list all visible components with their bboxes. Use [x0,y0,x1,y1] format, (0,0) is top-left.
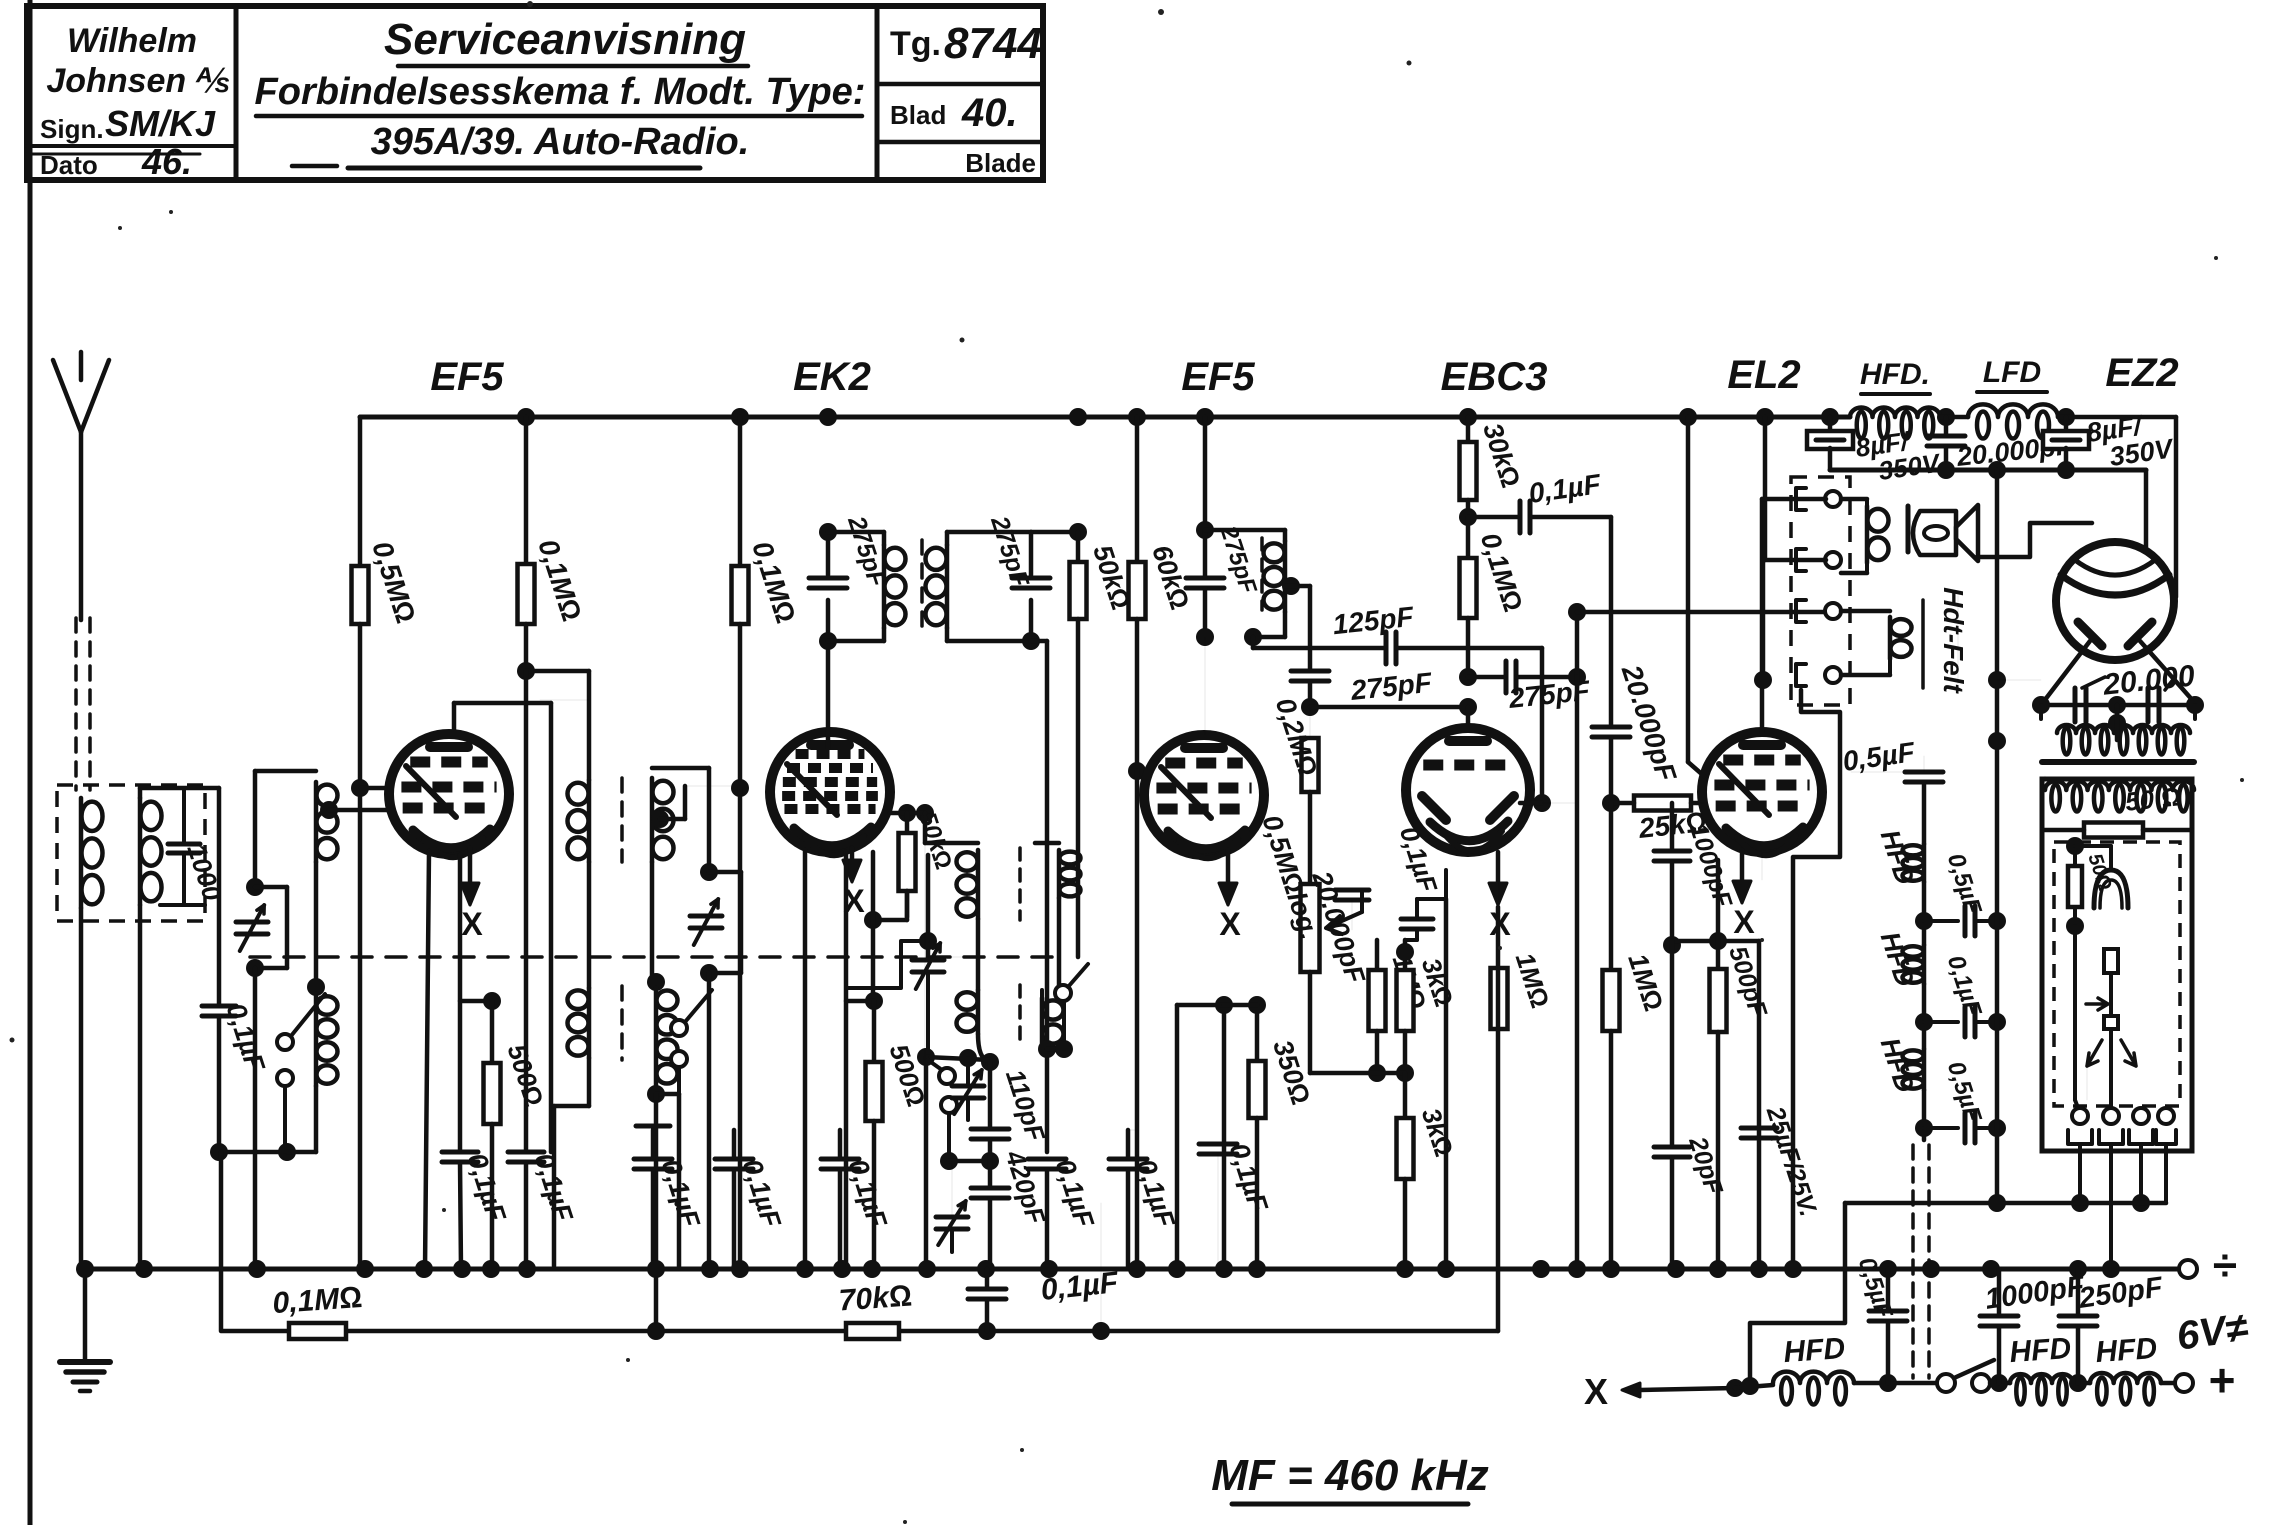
tall winding A lower [568,990,589,1009]
resistor 350ohm [1255,1005,1260,1061]
tg rule [877,82,1043,87]
EL2 top cap riser [1760,499,1765,732]
tall winding A middle [587,862,592,988]
svg-text:SM/KJ: SM/KJ [105,103,216,144]
svg-text:40.: 40. [961,91,1018,135]
osc tap [651,810,669,828]
svg-text:HFD: HFD [2008,1332,2072,1369]
osc fb link [873,918,907,923]
svg-text:Blade: Blade [965,148,1036,178]
vibrator pin 3 [2133,1108,2149,1124]
junction on bottom bus x=144 [135,1260,153,1278]
svg-text:Johnsen ⅍: Johnsen ⅍ [46,62,229,100]
EL2 screen riser [1686,417,1691,762]
plus rail segment 3 [1990,1381,2010,1386]
resistor 50kohm osc [905,813,910,833]
EZ2 anode lead right [2140,641,2195,703]
capacitor 250pF bottom [2076,1269,2081,1316]
bus terminal plus [2175,1374,2193,1392]
EK2 top cap lead [826,641,831,748]
tube EF5 No1 [389,734,509,854]
junction on bottom bus x=805 [796,1260,814,1278]
IFT1 primary bottom [828,639,884,644]
EZ2 anode lead left [2041,641,2090,705]
junction on bottom bus x=1718 [1709,1260,1727,1278]
resistor 50kohm [1076,532,1081,562]
wire HFD to LFD [1940,415,1968,420]
transformer terminal 2 [1796,549,1806,571]
tube EBC3 [1406,728,1530,852]
ground symbol [60,1359,110,1365]
speaker bar [1906,506,1911,552]
svg-text:EZ2: EZ2 [2105,351,2178,395]
resistor 0,5Mohm body [358,417,363,566]
svg-text:X: X [461,906,483,942]
junction on top bus x=1688 [1679,408,1697,426]
capacitor 0,5uF top [1851,771,1906,773]
IFT1 primary left side [826,532,831,575]
choke chain node 2 [1922,984,1927,1049]
capacitor 20.000pF filter [1944,417,1949,436]
svg-text:X: X [1733,904,1755,940]
vibrator pin wires [2078,1144,2082,1203]
junction on bottom bus x=1577 [1568,1260,1586,1278]
antenna coil shield box (dashed) [57,785,205,921]
cathode line EF5 No2 [1222,1005,1227,1269]
junction on bottom bus x=1257 [1248,1260,1266,1278]
junction on bottom bus x=842 [833,1260,851,1278]
aux line up to EBC3 [1496,907,1501,1331]
junction on bottom bus x=1676 [1667,1260,1685,1278]
gang dashed coupling line [250,955,1065,959]
EF5 cathode lead right [458,855,463,1152]
HT cap row [2041,703,2195,708]
choke HFD b1 [1773,1372,1854,1383]
EBC3 X arrow [1496,852,1501,901]
IFT1 secondary side [1029,532,1034,575]
IFT1 primary coil [885,548,906,570]
resistor 0,2Mohm [1309,707,1311,738]
125pF lead down [1540,648,1545,803]
RF grid coil top wire [255,769,316,774]
svg-text:X: X [1219,906,1241,942]
junction on bottom bus x=740 [731,1260,749,1278]
title block frame [27,6,1043,180]
svg-text:÷: ÷ [2213,1241,2237,1290]
resistor 3kohm a [1403,940,1408,970]
sign row rule [27,144,236,148]
junction on bottom bus x=527 [518,1260,536,1278]
EF5 grid lead down [549,703,554,1152]
svg-text:EK2: EK2 [793,355,871,399]
osc band switch [671,1020,687,1036]
plus rail segment 4 [2073,1381,2090,1386]
EF5 No1 X arrow [468,848,473,901]
field return vertical [1995,470,2000,1203]
svg-text:EF5: EF5 [1181,355,1255,399]
vertical field wire [1575,612,1580,677]
transformer core line [2042,759,2194,765]
wire cathode tap [1177,1003,1224,1008]
junction on bottom bus x=1931 [1922,1260,1940,1278]
junction on bottom bus x=1137 [1128,1260,1146,1278]
capacitor 0,5uF chain1 [1924,919,1958,923]
antenna [79,430,84,620]
wire 0,5M to cathode bottom [358,788,363,1269]
aux riser x=1101 [1100,1203,1102,1331]
label 20.000 ticks [2082,677,2105,688]
resistor 25kohm [1634,796,1691,811]
EF5 No2 X arrow [1226,850,1231,901]
junction on bottom bus x=491 [482,1260,500,1278]
osc grid winding upper [652,766,709,771]
junction on bottom bus x=2078 [2069,1260,2087,1278]
svg-text:EF5: EF5 [430,355,504,399]
resistor 60kohm [1135,417,1140,562]
junction on bottom bus x=462 [453,1260,471,1278]
capacitor 420pF [971,1186,1009,1191]
junction on top bus x=1830 [1821,408,1839,426]
svg-text:Forbindelsesskema f. Modt. Typ: Forbindelsesskema f. Modt. Type: [255,71,866,113]
capacitor 275pF ebc3 [1468,675,1506,680]
vibrator pin 1 [2072,1108,2088,1124]
svg-text:Blad: Blad [890,100,946,130]
EK2 anode wire [890,811,925,816]
B+ rail corner down [2144,470,2149,557]
EF5 No2 grid top lead [1204,637,1206,735]
resistor 500ohm EF5 [490,1001,495,1063]
choke HFD h3 [1903,1050,1924,1061]
osc trimmer 2 [952,1084,984,1089]
junction on bottom bus x=1446 [1437,1260,1455,1278]
capacitor 0,5uF chain3 [1924,1126,1958,1130]
primary winding [1841,497,1867,502]
vibrator return bus [1845,1201,2166,1206]
page border left rule [28,0,33,1525]
pot return wire [1310,1071,1405,1076]
resistor 0,1Mohm (screen) [524,417,529,564]
grid return wire [1672,939,1759,944]
capacitor 1000pF el2 grid [1670,803,1675,851]
capacitor 0,1uF (screen) [508,1150,544,1155]
junction on bottom bus x=710 [701,1260,719,1278]
resistor 0,1Mohm ebc3 [1466,517,1471,558]
junction on bottom bus x=986 [977,1260,995,1278]
osc node wire [926,1057,990,1060]
field coil supply wire [1577,610,1826,615]
cap 0,1uF osc out [1028,1157,1066,1162]
osc winding bottom [654,1086,659,1094]
junction on bottom bus x=1793 [1784,1260,1802,1278]
resistor 30kohm [1466,417,1471,442]
vibrator contact arrow [2086,998,2108,1010]
resistor 70kohm [846,1323,899,1339]
EZ2 anode plates [2078,622,2102,646]
resistor 500ohm EK2 [866,1062,883,1121]
resistor 0,1Mohm avc [289,1323,346,1339]
IFT1 core dashes [920,540,924,636]
capacitor 125pF [1251,637,1256,648]
junction on bottom bus x=1541 [1532,1260,1550,1278]
IFT3 cap 275pF [1186,576,1224,581]
transformer terminal 4 [1796,664,1806,686]
IFT1 secondary cap 275pF [1012,576,1050,581]
capacitor 0,1uF at x=734 [715,1157,753,1162]
60k lead to bottom bus [1135,771,1140,1269]
osc sec switch [1055,985,1071,1001]
junction on bottom bus x=656 [647,1260,665,1278]
terminal 4 return loop [1793,690,1840,1269]
osc switch 2 [939,1068,955,1084]
capacitor 20pF [1670,941,1675,1147]
svg-text:HFD: HFD [1782,1332,1846,1369]
osc trimmer 1 [912,958,944,963]
antenna shielded lead (dashed pair) [74,618,78,790]
svg-text:MF = 460 kHz: MF = 460 kHz [1211,1451,1489,1500]
ferrite core mark [636,1124,670,1129]
junction on top bus x=1078 [1069,408,1087,426]
heater twisted pair dashed [1911,1145,1915,1378]
junction on top bus x=2066 [2057,408,2075,426]
junction on bottom bus x=85 [76,1260,94,1278]
osc padder to bus [988,1198,993,1269]
svg-text:EL2: EL2 [1727,353,1800,397]
field coil [1891,619,1912,636]
IFT1 secondary top [947,530,1031,535]
junction on top bus x=740 [731,408,749,426]
EK2 grid line to bottom [738,788,743,1269]
wire LFD to corner [2058,415,2176,420]
IFT3 core dashes [1260,538,1264,610]
gang1 lead to bus [253,968,258,1269]
bottom chassis bus [85,1267,2188,1272]
svg-text:Tg.: Tg. [890,25,941,63]
IFT1 return lead [1045,641,1050,1152]
capacitor 20.000pF (pot) [1335,888,1369,893]
osc transformer primary upper [925,841,978,846]
EL2 grid lead [1691,802,1704,804]
junction on bottom bus x=927 [918,1260,936,1278]
junction on bottom bus x=1224 [1215,1260,1233,1278]
variable capacitor gang 1 [236,920,268,925]
osc coupling winding upper [540,699,589,701]
link to switch node [219,1150,287,1155]
capacitor 275pF (diode) [1291,669,1329,674]
junction on bottom bus x=1759 [1750,1260,1768,1278]
svg-text:Serviceanvisning: Serviceanvisning [384,15,746,64]
svg-text:HFD.: HFD. [1860,358,1930,391]
junction on top bus x=1946 [1937,408,1955,426]
wire diode node to EBC3 [1310,705,1468,710]
svg-text:Sign.: Sign. [40,114,104,144]
IFT3 coil box [1205,528,1285,533]
output transformer dashed box [1791,477,1850,705]
choke HFD h1 [1922,782,1927,844]
IFT1 secondary bottom [947,639,1031,644]
EK2 screen lead [925,956,978,958]
RF grid coil upper [317,785,338,806]
EBC3 grid top lead [1466,707,1471,728]
EBC3 diode 2 wire [1520,801,1542,806]
tall winding A upper [568,783,589,805]
junction on bottom bus x=2111 [2102,1260,2120,1278]
capacitor 110pF [988,1062,993,1129]
svg-text:Wilhelm: Wilhelm [67,22,197,60]
junction on bottom bus x=1888 [1879,1260,1897,1278]
secondary return to bus [138,905,143,1269]
choke HFD b2 [2010,1374,2073,1383]
svg-text:395A/39. Auto-Radio.: 395A/39. Auto-Radio. [371,121,750,163]
RF coil lower lead [314,862,319,987]
resistor 0,1Mohm (EK2 grid) [738,417,743,566]
osc node to bus [924,1057,929,1269]
vibrator feed resistor 50ohm [2084,823,2143,838]
antenna line to bus [79,908,84,1269]
potentiometer 0,5Mohm log [1301,884,1320,972]
primary winding 6V [2045,781,2194,790]
IFT1 secondary coil [926,548,947,570]
EK2 cathode lead [871,852,876,1001]
vibrator inner dashed box [2054,842,2180,1106]
top supply bus wire [360,415,1850,420]
choke chain node 3 [1922,1090,1927,1140]
title block divider 2 [875,6,880,180]
field return tap wire [1997,679,2041,681]
tall winding A bottom [587,1058,592,1106]
osc sec mid [1057,898,1062,985]
EK2 grid lead left [844,852,849,1269]
vibrator series resistor 50ohm [2068,866,2082,907]
choke chain node 1 [1922,882,1927,945]
junction on top bus x=828 [819,408,837,426]
junction on top bus x=1205 [1196,408,1214,426]
junction on bottom bus x=1177 [1168,1260,1186,1278]
osc winding lower [657,990,678,1010]
osc sec upper coil [1035,841,1059,846]
capacitor 0,1uF at x=840 [821,1157,859,1162]
return jog [1750,1203,1845,1381]
aux dots [647,1322,665,1340]
capacitor 1000pF bottom [1997,1269,2002,1316]
tube EF5 No2 [1144,735,1264,855]
gang2 lower lead [707,973,712,1269]
osc switch line to aux [677,1094,682,1269]
antenna secondary coil [141,802,162,831]
junction on bottom bus x=1991 [1982,1260,2000,1278]
vibrator armature [2073,926,2077,1100]
antenna primary coil [82,802,103,831]
vibrator pin 4 [2158,1108,2174,1124]
junction on bottom bus x=365 [356,1260,374,1278]
variable capacitor gang 2 [690,914,722,919]
EBC3 cathode bypass cap 0,1uF [1401,917,1433,922]
svg-text:8744: 8744 [944,19,1042,68]
osc trimmer 3 [936,1215,968,1220]
aux AVC line [221,1152,1498,1331]
svg-text:EBC3: EBC3 [1441,355,1548,399]
grid lead down [217,788,222,1006]
resistor 500pF body [1716,860,1721,969]
capacitor 0,1uF chain2 [1924,1020,1958,1024]
tuning gang section 1 frame [253,771,258,887]
svg-text:0,1MΩ: 0,1MΩ [271,1281,363,1320]
EK2 X arrow [850,848,855,878]
terminal 2 wire [1763,558,1826,563]
transformer terminal 1 [1796,488,1806,510]
speaker magnet [1913,511,1956,555]
svg-text:46.: 46. [141,141,192,182]
junction on bottom bus x=872 [863,1260,881,1278]
EZ2 tube envelope [2056,542,2174,660]
IFT1 primary top [828,530,884,535]
svg-text:LFD: LFD [1983,356,2041,389]
osc winding lower lead [650,862,655,982]
wire 350 node [1224,1003,1257,1008]
capacitor 0,1uF at x=653 [634,1157,672,1162]
junction on top bus x=1137 [1128,408,1146,426]
gang frame 2 [707,768,712,872]
capacitor 0,1uF coupling [1468,515,1520,520]
HT centre tap [2115,705,2120,740]
junction on top bus x=526 [517,408,535,426]
EF5 top cap lead [452,703,457,745]
pot wiper arrow [1326,912,1362,934]
wave band switch [277,1034,293,1050]
junction on bottom bus x=257 [248,1260,266,1278]
vibrator lower arrows [2087,1040,2102,1066]
tube EL2 [1702,732,1822,852]
blad rule [877,140,1043,145]
EBC3 cathode to bus [1444,899,1449,1269]
EK2 anode dots [898,804,916,822]
EF5 cathode link [460,999,492,1004]
choke LFD (filter) [1968,404,2058,417]
svg-text:70kΩ: 70kΩ [838,1280,913,1318]
padding capacitor 1000 [168,842,200,847]
svg-text:Hdt-Felt: Hdt-Felt [1938,587,1969,694]
screen node wire right [526,669,589,674]
IFT3 tap [1282,577,1300,595]
RF coil tap wire to tube [320,801,338,819]
junction on top bus x=1468 [1459,408,1477,426]
transformer terminal 3 [1796,600,1806,622]
plus rail segment 2 [1854,1381,1938,1386]
svg-text:HFD: HFD [2094,1332,2158,1369]
screen feed lead down [587,671,592,780]
junction on bottom bus x=1405 [1396,1260,1414,1278]
osc core dashes [1018,848,1022,920]
X supply arrow [1622,1383,1640,1397]
tube EK2 [770,732,890,852]
title block divider 1 [234,6,239,180]
svg-text:X: X [1584,1371,1608,1412]
bus terminal minus [2179,1260,2197,1278]
svg-text:Dato: Dato [40,150,98,180]
field coil terminal 3 wire [1841,609,1890,614]
cap 0,1uF ift2 [1109,1157,1147,1162]
winding core dashes [620,778,624,862]
speaker horn [1956,505,1978,561]
resistor 1Mohm ebc3 down [1609,803,1614,970]
EL2 anode feed from bus [1763,417,1768,560]
HT secondary winding [2057,725,2190,733]
osc gang jog [848,941,928,988]
svg-text:X: X [1489,906,1511,942]
ant grid lead lower [217,1016,222,1152]
ground lead [83,1269,88,1362]
EZ2 filament arcs [2061,575,2169,595]
capacitor 25uF/25V [1741,1126,1777,1131]
